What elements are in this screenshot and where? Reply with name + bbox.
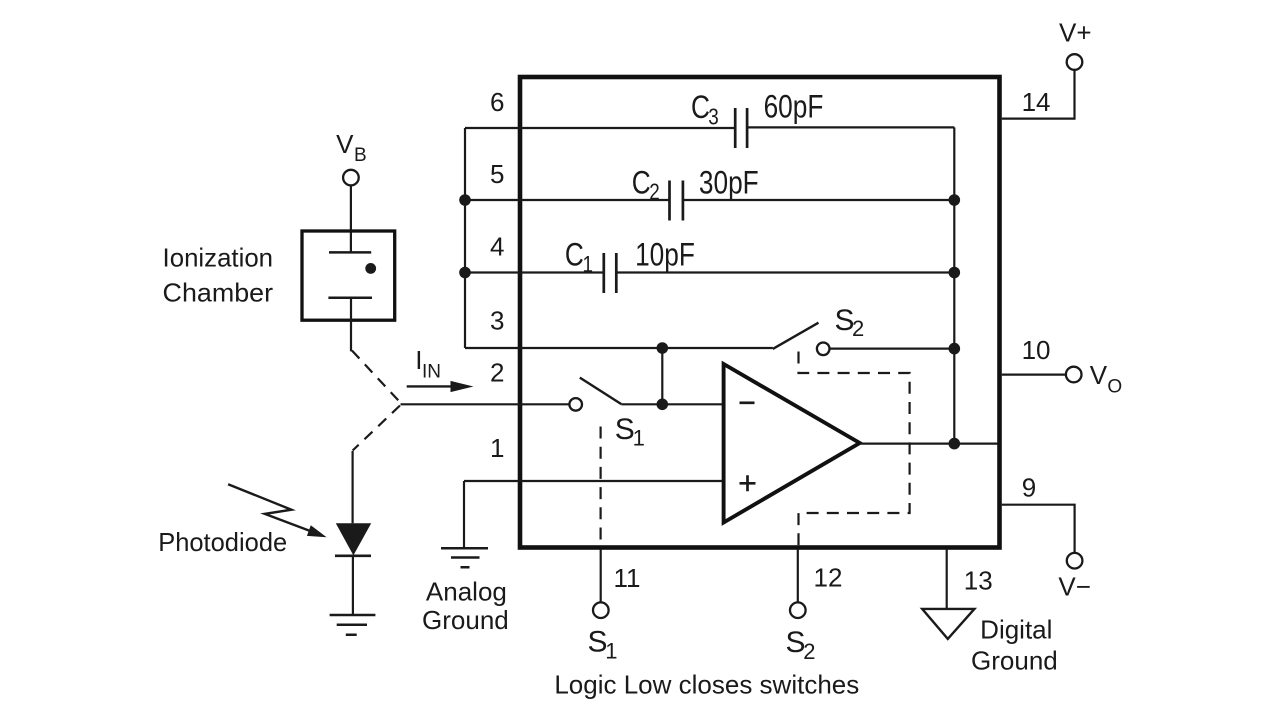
digital ground symbol (open triangle): [922, 609, 974, 639]
switch S1 contact circle: [569, 398, 582, 411]
wire pin 1 row to op-amp non-inverting input: [464, 480, 724, 482]
IC package outline U1: [520, 77, 1000, 548]
svg-text:Ground: Ground: [971, 645, 1058, 675]
label VB: [336, 129, 367, 166]
capacitor C1 plates: [604, 253, 617, 293]
wire pin 3 row to S2 switch: [465, 347, 773, 349]
V- terminal circle: [1067, 553, 1083, 569]
wire S1 to op-amp inverting input: [621, 403, 723, 405]
label S2 switch: [835, 304, 865, 341]
svg-text:10pF: 10pF: [635, 238, 695, 273]
svg-text:30pF: 30pF: [699, 166, 759, 201]
ionization chamber particle dot: [365, 263, 376, 274]
wire VB to ionization chamber: [350, 186, 352, 253]
label S1 switch: [615, 413, 645, 451]
wire C3 right plate to right bus: [747, 126, 954, 128]
pin 14 wire to V+: [1002, 70, 1075, 119]
wire pin 6 row to C3 left plate: [465, 127, 735, 129]
svg-text:IN: IN: [422, 361, 441, 382]
svg-text:Ground: Ground: [422, 605, 509, 635]
junction dot right bus output row: [949, 438, 961, 450]
svg-text:3: 3: [708, 105, 718, 130]
svg-text:Logic Low closes switches: Logic Low closes switches: [554, 669, 859, 699]
svg-text:2: 2: [490, 358, 504, 388]
left input bus wire (pins 3-6): [464, 128, 466, 348]
svg-text:V+: V+: [1059, 18, 1092, 48]
svg-text:C: C: [691, 91, 710, 126]
op-amp plus sign: [740, 475, 756, 491]
junction dot right bus S2 row: [949, 343, 961, 355]
svg-text:V: V: [336, 129, 354, 159]
pin 12 terminal circle: [790, 602, 806, 618]
switch S1 arm: [580, 378, 622, 405]
svg-text:2: 2: [649, 180, 659, 205]
label VO: [1090, 360, 1122, 397]
wire C1 right plate to right bus: [616, 271, 954, 273]
op-amp minus sign: [740, 401, 755, 404]
svg-text:V: V: [1090, 360, 1108, 390]
current arrow IIN: [407, 385, 453, 387]
switch S2 arm: [773, 323, 819, 349]
label Digital Ground: [971, 615, 1058, 676]
svg-text:C: C: [565, 238, 584, 273]
svg-text:12: 12: [814, 563, 843, 593]
pin 11 stub wire: [600, 549, 602, 602]
wire photodiode anode: [352, 451, 354, 523]
wire S2 circle to right bus: [830, 348, 955, 350]
svg-text:Analog: Analog: [426, 576, 507, 606]
svg-text:B: B: [354, 145, 367, 166]
right feedback bus wire: [953, 127, 955, 443]
ionization chamber top plate: [329, 251, 371, 254]
dashed control line S2 to pin 12: [799, 352, 910, 547]
svg-text:5: 5: [490, 159, 504, 189]
wire pin 1 down to analog ground: [463, 481, 465, 548]
svg-text:Photodiode: Photodiode: [158, 527, 287, 557]
junction dot inverting input: [657, 399, 669, 411]
label Ionization Chamber: [163, 243, 274, 308]
label C3: [691, 91, 719, 130]
wire pin 4 row to C1 left plate: [465, 271, 604, 273]
svg-text:1: 1: [583, 252, 593, 277]
junction dot right bus C2 row: [949, 194, 961, 206]
ionization chamber box: [302, 231, 395, 320]
wire photodiode to ground: [352, 556, 354, 615]
svg-text:9: 9: [1022, 473, 1036, 503]
photodiode D1 triangle: [336, 523, 371, 555]
svg-text:1: 1: [490, 433, 504, 463]
VB terminal circle: [343, 170, 359, 186]
junction dot left bus pin 4: [459, 267, 471, 279]
wire pin 5 row to C2 left plate: [465, 199, 670, 201]
svg-text:11: 11: [614, 563, 641, 593]
ionization chamber bottom plate: [328, 297, 372, 300]
analog ground symbol: [441, 548, 488, 567]
label Analog Ground: [422, 576, 509, 635]
pin 9 wire to V-: [1002, 505, 1075, 553]
capacitor C3 plates: [735, 108, 747, 148]
pin 10 wire to VO: [1002, 374, 1066, 376]
label C2: [632, 166, 660, 205]
dashed control line S1 to pin 11: [599, 427, 601, 547]
wire chamber bottom: [350, 298, 352, 352]
svg-text:60pF: 60pF: [764, 90, 824, 125]
label IIN: [415, 345, 441, 382]
wire input pin 2 (junction to S1): [401, 403, 570, 405]
svg-text:14: 14: [1022, 87, 1051, 117]
svg-text:1: 1: [605, 638, 617, 663]
op-amp A1: [724, 364, 860, 523]
pin 12 stub wire: [797, 549, 799, 602]
svg-text:O: O: [1107, 377, 1122, 398]
dashed wire input junction to photodiode: [353, 406, 400, 451]
svg-text:2: 2: [803, 639, 815, 664]
junction dot right bus C1 row: [949, 267, 961, 279]
junction dot left bus pin 5: [459, 194, 471, 206]
junction dot pin3 row inverting stub: [657, 342, 669, 354]
dashed wire chamber to input junction: [352, 351, 400, 403]
photodiode ground symbol: [330, 615, 376, 635]
pin 13 stub wire: [946, 549, 948, 608]
svg-text:1: 1: [633, 426, 645, 451]
wire C2 right plate to right bus: [683, 199, 954, 201]
svg-text:Ionization: Ionization: [163, 243, 274, 273]
VO terminal circle: [1066, 367, 1082, 383]
svg-text:Chamber: Chamber: [163, 278, 274, 308]
svg-text:Digital: Digital: [980, 615, 1052, 645]
svg-text:10: 10: [1022, 335, 1051, 365]
V+ terminal circle: [1067, 54, 1083, 70]
svg-text:13: 13: [964, 566, 993, 596]
photodiode cathode bar: [335, 554, 371, 557]
svg-text:6: 6: [490, 87, 504, 117]
label C1: [565, 238, 593, 277]
label S1 pin: [588, 626, 618, 664]
svg-text:3: 3: [490, 306, 504, 336]
svg-text:V−: V−: [1058, 572, 1091, 602]
label S2 pin: [786, 626, 816, 664]
light arrow into photodiode: [228, 484, 310, 531]
switch S2 contact circle: [817, 343, 830, 356]
wire op-amp output to pin 10 edge: [860, 443, 998, 445]
wire stub pin3 row to inverting input: [661, 348, 663, 404]
capacitor C2 plates: [670, 181, 683, 221]
svg-text:C: C: [632, 166, 651, 201]
svg-text:2: 2: [852, 316, 864, 341]
pin 11 terminal circle: [593, 602, 609, 618]
svg-text:4: 4: [490, 232, 504, 262]
